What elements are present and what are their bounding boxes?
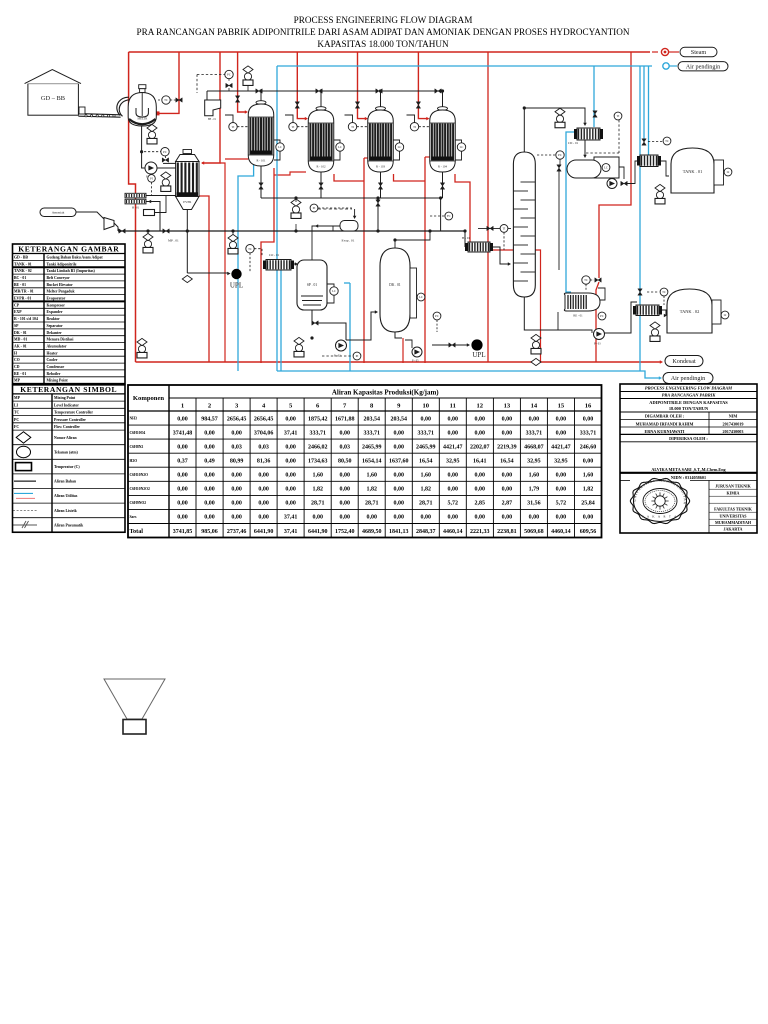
wire black double pipe H-01 line — [125, 195, 176, 197]
svg-text:C6H10N2O: C6H10N2O — [130, 473, 149, 477]
svg-text:2,87: 2,87 — [502, 501, 513, 507]
svg-text:MP: MP — [14, 379, 21, 383]
instrument LC dk — [417, 293, 425, 301]
svg-text:1,60: 1,60 — [421, 473, 432, 479]
svg-text:Aliran Listrik: Aliran Listrik — [54, 509, 78, 513]
wire black main mixing line — [118, 230, 465, 232]
chute hopper — [205, 100, 221, 116]
svg-text:0,00: 0,00 — [285, 459, 296, 465]
svg-text:31,56: 31,56 — [527, 501, 541, 507]
pump P-01 — [145, 162, 157, 174]
instrument LC R4 — [457, 143, 465, 151]
svg-text:C6H9NO2: C6H9NO2 — [130, 501, 147, 505]
instrument stack bottoms — [291, 199, 301, 219]
wire black reboiler vapor return — [597, 288, 605, 300]
instrument TC tank01 line — [663, 137, 671, 145]
svg-text:DK - 01: DK - 01 — [14, 331, 27, 335]
svg-text:4460,14: 4460,14 — [551, 529, 571, 535]
svg-text:KIMIA: KIMIA — [727, 491, 740, 496]
svg-text:80,99: 80,99 — [230, 459, 244, 465]
svg-text:Pressure Controller: Pressure Controller — [54, 418, 86, 422]
svg-text:0,00: 0,00 — [448, 416, 459, 422]
svg-text:0,00: 0,00 — [366, 515, 377, 521]
wire red heater loop — [488, 250, 541, 362]
title block — [620, 384, 757, 533]
svg-text:EXP: EXP — [14, 310, 22, 314]
svg-text:Aliran Bahan: Aliran Bahan — [54, 480, 77, 484]
heater H-01b — [462, 236, 493, 252]
svg-text:MD - 01: MD - 01 — [14, 338, 27, 342]
svg-text:LI: LI — [14, 403, 19, 407]
wire cyan tank cooler branch — [639, 66, 641, 371]
instrument TC tank02 — [660, 288, 668, 296]
wire black pump P-02 to decanter — [346, 312, 376, 340]
svg-text:NH3: NH3 — [130, 417, 138, 421]
instrument LC R2 — [336, 143, 344, 151]
svg-text:KETERANGAN GAMBAR: KETERANGAN GAMBAR — [18, 244, 119, 253]
svg-text:0,00: 0,00 — [204, 487, 215, 493]
svg-text:0,00: 0,00 — [529, 416, 540, 422]
wire black amoniak feed — [76, 212, 104, 219]
stream diamond dk bottom — [531, 358, 541, 365]
svg-text:81,36: 81,36 — [257, 459, 271, 465]
wire red reboiler steam — [599, 52, 631, 278]
instrument LC R3 — [395, 143, 403, 151]
svg-text:6441,90: 6441,90 — [308, 529, 328, 535]
svg-text:H: H — [14, 351, 17, 355]
svg-text:25,84: 25,84 — [581, 501, 595, 507]
svg-text:333,71: 333,71 — [418, 430, 435, 436]
wire black SP-01 bottom — [311, 310, 313, 323]
instrument TI cd — [614, 112, 622, 120]
wire black separator top vapor — [312, 226, 333, 260]
instrument LC sp — [330, 287, 338, 295]
svg-text:DIGAMBAR OLEH :: DIGAMBAR OLEH : — [645, 414, 685, 419]
svg-text:1,79: 1,79 — [529, 487, 540, 493]
svg-text:Cooler: Cooler — [47, 358, 58, 362]
waste point UPL 1 — [231, 269, 241, 279]
wire black melter bottom outlet — [142, 126, 145, 168]
instrument stack overhead — [555, 108, 565, 128]
svg-text:UNIVERSITAS: UNIVERSITAS — [719, 514, 747, 519]
warehouse GD-BB — [25, 70, 81, 116]
svg-text:MUHAMAD IRFANDI RAHIM: MUHAMAD IRFANDI RAHIM — [636, 421, 694, 426]
svg-text:0,03: 0,03 — [258, 444, 269, 450]
svg-text:0,00: 0,00 — [204, 515, 215, 521]
svg-text:0,37: 0,37 — [177, 459, 188, 465]
amoniak source — [40, 208, 76, 217]
svg-text:0,00: 0,00 — [204, 473, 215, 479]
svg-text:4460,14: 4460,14 — [443, 529, 463, 535]
svg-text:1,60: 1,60 — [583, 473, 594, 479]
air pendingin bottom label — [663, 373, 713, 384]
svg-text:0,00: 0,00 — [204, 501, 215, 507]
wire red R-103 feed drop — [364, 157, 369, 159]
svg-text:BE - 01: BE - 01 — [14, 283, 26, 287]
instrument TI R1 — [229, 123, 237, 131]
svg-text:1654,14: 1654,14 — [362, 459, 382, 465]
svg-text:Separator: Separator — [47, 324, 64, 328]
svg-text:0,00: 0,00 — [258, 473, 269, 479]
svg-text:0,00: 0,00 — [394, 473, 405, 479]
decanter DK-01 — [380, 248, 417, 332]
wire red melter feed — [159, 52, 179, 113]
funnel symbol — [104, 679, 165, 719]
mixing point MP-01 — [119, 229, 125, 233]
svg-text:Dekanter: Dekanter — [47, 331, 62, 335]
svg-text:1,60: 1,60 — [529, 473, 540, 479]
wire cyan H-02 branch — [648, 66, 650, 155]
wire cyan tank valve branch — [643, 66, 645, 139]
svg-text:0,00: 0,00 — [556, 430, 567, 436]
svg-text:C6H8N2: C6H8N2 — [130, 445, 144, 449]
valve feed — [487, 226, 493, 230]
svg-text:Tekanan (atm): Tekanan (atm) — [54, 450, 79, 454]
svg-text:14: 14 — [531, 403, 538, 410]
svg-text:0,00: 0,00 — [177, 501, 188, 507]
svg-text:H2O: H2O — [130, 459, 138, 463]
svg-text:1637,60: 1637,60 — [389, 459, 409, 465]
bucket elevator chute — [117, 97, 129, 115]
svg-text:0,00: 0,00 — [339, 515, 350, 521]
svg-text:Temperature Controller: Temperature Controller — [54, 411, 93, 415]
svg-text:333,71: 333,71 — [363, 430, 380, 436]
svg-text:16,54: 16,54 — [500, 459, 514, 465]
svg-text:0,00: 0,00 — [556, 515, 567, 521]
svg-text:16: 16 — [585, 403, 592, 410]
svg-text:2017430003: 2017430003 — [723, 429, 744, 434]
svg-text:333,71: 333,71 — [580, 430, 597, 436]
svg-text:0,00: 0,00 — [231, 487, 242, 493]
instrument PC evaporator — [161, 148, 169, 156]
svg-text:0,00: 0,00 — [177, 487, 188, 493]
svg-text:Mixing Point: Mixing Point — [47, 379, 69, 383]
instrument stack melter bottom — [147, 124, 157, 144]
svg-text:0,00: 0,00 — [177, 473, 188, 479]
svg-text:4421,47: 4421,47 — [551, 444, 571, 450]
svg-text:1: 1 — [181, 403, 184, 410]
svg-text:Flow Controller: Flow Controller — [54, 425, 80, 429]
svg-text:0,00: 0,00 — [339, 430, 350, 436]
svg-text:GD - BB: GD - BB — [14, 255, 28, 259]
instrument LC accumulator — [602, 164, 610, 172]
instrument TI feed — [500, 225, 508, 233]
instrument stack b1 — [137, 338, 147, 358]
svg-text:984,57: 984,57 — [201, 416, 218, 422]
compressor CP-01 — [104, 218, 114, 230]
wire black CD-01 to accumulator — [583, 155, 587, 158]
svg-text:Menara Distilasi: Menara Distilasi — [47, 338, 74, 342]
svg-text:1,82: 1,82 — [583, 487, 594, 493]
svg-text:Aliran Kapasitas Produksi(Kg/j: Aliran Kapasitas Produksi(Kg/jam) — [332, 389, 439, 397]
svg-text:0,00: 0,00 — [556, 473, 567, 479]
svg-text:2219,39: 2219,39 — [497, 444, 517, 450]
wire red R-102 outlet riser — [334, 174, 364, 181]
separator SP-01 — [297, 260, 327, 310]
evap drum Evap-01 — [340, 221, 358, 232]
instrument TC melter — [162, 96, 170, 104]
svg-text:1671,88: 1671,88 — [335, 416, 355, 422]
svg-text:Evaporator: Evaporator — [47, 297, 66, 301]
svg-text:JURUSAN TEKNIK: JURUSAN TEKNIK — [715, 484, 751, 489]
svg-text:PROCESS ENGINEERING FLOW DIAGR: PROCESS ENGINEERING FLOW DIAGRAM — [645, 386, 733, 391]
svg-text:0,00: 0,00 — [204, 430, 215, 436]
svg-text:203,54: 203,54 — [391, 416, 408, 422]
svg-text:0,00: 0,00 — [231, 515, 242, 521]
svg-text:0,00: 0,00 — [285, 501, 296, 507]
svg-text:0,00: 0,00 — [475, 430, 486, 436]
svg-text:37,41: 37,41 — [284, 515, 298, 521]
tank TANK-01 — [671, 148, 724, 193]
svg-text:MP: MP — [14, 396, 21, 400]
air pendingin source symbol — [663, 63, 669, 69]
svg-text:985,06: 985,06 — [201, 529, 218, 535]
reboiler RE-01 — [564, 293, 600, 318]
instrument TI R2 — [289, 123, 297, 131]
svg-text:0,00: 0,00 — [421, 515, 432, 521]
wire black decanter side to pump — [405, 340, 412, 348]
air pendingin top label — [669, 65, 677, 67]
wire black decanter bottom — [395, 332, 402, 338]
wire red reactor R-103 feed — [358, 52, 367, 119]
svg-text:0,00: 0,00 — [231, 473, 242, 479]
wire red evaporator bottoms — [199, 196, 209, 362]
svg-text:BC - 01: BC - 01 — [14, 276, 26, 280]
svg-text:2017430019: 2017430019 — [723, 421, 744, 426]
svg-text:3741,48: 3741,48 — [173, 430, 193, 436]
svg-text:32,95: 32,95 — [446, 459, 460, 465]
svg-text:5069,68: 5069,68 — [524, 529, 544, 535]
svg-text:4668,07: 4668,07 — [524, 444, 544, 450]
svg-text:0,00: 0,00 — [475, 487, 486, 493]
wire black AK to pump — [619, 167, 624, 179]
wire red bottom condensate header — [136, 361, 662, 363]
instrument stack R1 feed — [243, 66, 253, 86]
svg-text:1,60: 1,60 — [312, 473, 323, 479]
wire black decanter overhead — [395, 231, 430, 248]
svg-text:0,00: 0,00 — [448, 430, 459, 436]
svg-text:0,00: 0,00 — [475, 473, 486, 479]
svg-text:Reaktor: Reaktor — [47, 317, 61, 321]
svg-text:0,00: 0,00 — [583, 416, 594, 422]
instrument PI bottoms — [310, 204, 318, 212]
reactor R - 101 — [248, 101, 274, 166]
svg-text:0,00: 0,00 — [339, 487, 350, 493]
wire black header drop R-102 — [320, 91, 322, 109]
svg-text:1,82: 1,82 — [421, 487, 432, 493]
svg-text:AK - 01: AK - 01 — [14, 345, 27, 349]
instrument PI — [148, 175, 156, 183]
svg-text:2238,81: 2238,81 — [497, 529, 517, 535]
svg-text:ALVIKA META SARI ,S.T,.M.Chem.: ALVIKA META SARI ,S.T,.M.Chem.Eng — [651, 467, 726, 472]
svg-text:0,00: 0,00 — [475, 515, 486, 521]
svg-text:6441,90: 6441,90 — [254, 529, 274, 535]
svg-text:0,00: 0,00 — [583, 459, 594, 465]
instrument TC reboiler — [582, 276, 590, 284]
svg-text:1875,42: 1875,42 — [308, 416, 328, 422]
svg-text:203,54: 203,54 — [363, 416, 380, 422]
svg-text:0,00: 0,00 — [394, 444, 405, 450]
instrument LI tank01 — [724, 168, 732, 176]
svg-text:2848,37: 2848,37 — [416, 529, 436, 535]
wire black to waste UPL — [187, 272, 228, 274]
waste point UPL 2 — [471, 339, 482, 350]
instrument stack tank01 — [655, 184, 665, 204]
svg-text:0,00: 0,00 — [204, 444, 215, 450]
svg-text:Heater: Heater — [47, 351, 58, 355]
svg-text:2465,99: 2465,99 — [362, 444, 382, 450]
svg-text:DIPERIKSA OLEH :: DIPERIKSA OLEH : — [669, 436, 708, 441]
instrument LI tank02 — [721, 311, 729, 319]
svg-text:Temperatur (C): Temperatur (C) — [54, 465, 80, 469]
svg-text:KETERANGAN SIMBOL: KETERANGAN SIMBOL — [20, 385, 117, 394]
svg-text:Kompresor: Kompresor — [47, 303, 66, 307]
svg-text:RE - 01: RE - 01 — [14, 372, 26, 376]
wire black column bottom to reboiler — [524, 297, 560, 330]
evaporator EVPR-01 — [176, 150, 199, 210]
svg-text:1752,40: 1752,40 — [335, 529, 355, 535]
svg-text:PRA RANCANGAN PABRIK: PRA RANCANGAN PABRIK — [662, 393, 717, 398]
wire black from column bottoms to P-03 — [560, 330, 592, 333]
distillation column MD-01 — [513, 152, 535, 297]
svg-text:Nomor Aliran: Nomor Aliran — [54, 436, 77, 440]
svg-text:0,00: 0,00 — [502, 487, 513, 493]
svg-text:10: 10 — [423, 403, 430, 410]
wire cyan SP branch — [344, 282, 350, 284]
svg-text:SP: SP — [14, 324, 19, 328]
instrument stack mp01 — [143, 233, 153, 253]
wire black evaporator bottom line to stream diamond — [186, 210, 188, 273]
svg-text:R - 101 s/d 104: R - 101 s/d 104 — [14, 317, 38, 321]
svg-text:0,00: 0,00 — [394, 515, 405, 521]
wire black evap feed drop — [354, 209, 356, 217]
svg-text:0,00: 0,00 — [502, 416, 513, 422]
svg-text:Tanki Limbah B3 (Impuritas): Tanki Limbah B3 (Impuritas) — [47, 269, 96, 273]
kondesat label — [665, 356, 703, 367]
cooler CO-02 tank line — [637, 155, 661, 167]
svg-text:0,00: 0,00 — [177, 515, 188, 521]
svg-text:TANK - 02: TANK - 02 — [14, 269, 32, 273]
svg-text:0,00: 0,00 — [583, 515, 594, 521]
wire black header drop R-103 — [380, 91, 382, 109]
wire cyan cooling water top header — [277, 65, 652, 67]
svg-text:333,71: 333,71 — [526, 430, 543, 436]
wire red reactor R-104 feed — [418, 52, 427, 119]
wire red R-101 bottom inlet — [225, 158, 248, 160]
instrument PC header — [225, 70, 233, 78]
svg-text:1,82: 1,82 — [366, 487, 377, 493]
svg-text:0,00: 0,00 — [394, 487, 405, 493]
svg-text:1,82: 1,82 — [312, 487, 323, 493]
svg-text:4689,50: 4689,50 — [362, 529, 382, 535]
svg-text:J A K A R T A: J A K A R T A — [642, 515, 677, 519]
svg-text:Tanki Adiponitrile: Tanki Adiponitrile — [47, 262, 77, 266]
svg-text:0,00: 0,00 — [312, 515, 323, 521]
instrument stack column bottoms — [531, 334, 541, 354]
instrument TC co01 — [246, 245, 254, 253]
svg-text:15: 15 — [558, 403, 565, 410]
instrument stack evap side — [161, 172, 171, 192]
svg-text:Melter Pengaduk: Melter Pengaduk — [47, 290, 76, 294]
svg-text:0,00: 0,00 — [448, 473, 459, 479]
instrument TI R3 — [348, 123, 356, 131]
svg-text:4421,47: 4421,47 — [443, 444, 463, 450]
wire black header drop R-101 — [260, 91, 262, 103]
svg-text:CD: CD — [14, 365, 20, 369]
wire red R-102 bottom inlet — [274, 172, 306, 175]
svg-text:0,00: 0,00 — [231, 430, 242, 436]
svg-text:0,00: 0,00 — [502, 430, 513, 436]
svg-text:Sars: Sars — [130, 515, 138, 519]
svg-text:0,00: 0,00 — [258, 501, 269, 507]
wire black tank-02 feed — [603, 302, 637, 333]
cooler H-02 — [633, 305, 662, 316]
wire red reactor R-101 feed — [238, 52, 246, 112]
pump P-03 — [594, 329, 605, 340]
legend table KETERANGAN GAMBAR — [13, 244, 126, 384]
wire black line to H-01 feed preheater — [464, 231, 466, 247]
wire cyan separator jacket — [238, 163, 254, 371]
instrument stack sp bottom — [294, 337, 304, 357]
wire red R-104 outlet riser — [455, 174, 470, 242]
svg-text:Akumulator: Akumulator — [47, 345, 67, 349]
svg-text:0,00: 0,00 — [421, 416, 432, 422]
svg-text:Mixing Point: Mixing Point — [54, 396, 76, 400]
svg-text:3704,06: 3704,06 — [254, 430, 274, 436]
wire black chute feed — [206, 91, 208, 100]
svg-text:0,00: 0,00 — [529, 515, 540, 521]
svg-text:28,71: 28,71 — [311, 501, 325, 507]
svg-text:2465,99: 2465,99 — [416, 444, 436, 450]
svg-text:0,00: 0,00 — [556, 416, 567, 422]
svg-text:0,00: 0,00 — [177, 444, 188, 450]
svg-text:Aliran Pneumatik: Aliran Pneumatik — [54, 523, 84, 527]
pump P-02 — [336, 340, 347, 351]
svg-text:2737,46: 2737,46 — [227, 529, 247, 535]
wire black column overhead — [524, 108, 585, 152]
reactor R - 102 — [308, 107, 334, 172]
svg-text:0,00: 0,00 — [502, 515, 513, 521]
wire red steam drop to heater H-01 — [487, 52, 489, 362]
svg-text:28,71: 28,71 — [419, 501, 433, 507]
melter MR/TR-01 — [128, 85, 156, 126]
belt conveyor BC-01 — [78, 107, 120, 117]
wire black NH3 gas header — [207, 90, 443, 92]
wire red evaporator feed — [202, 52, 220, 163]
heater H-01 double pipe — [125, 193, 146, 209]
svg-text:0,00: 0,00 — [394, 430, 405, 436]
wire cyan condenser CD-01 feed — [593, 66, 595, 127]
cooler CO-01 — [263, 253, 294, 270]
svg-text:NIDN : 0314058601: NIDN : 0314058601 — [671, 475, 706, 480]
svg-text:Belt Conveyor: Belt Conveyor — [47, 276, 71, 280]
wire cyan reboiler branch from CD outlet — [566, 132, 577, 292]
svg-text:333,71: 333,71 — [309, 430, 326, 436]
wire red R-101 outlet riser — [261, 168, 274, 363]
svg-text:Gudang Bahan Baku Asam Adipat: Gudang Bahan Baku Asam Adipat — [47, 255, 104, 259]
svg-text:0,00: 0,00 — [231, 501, 242, 507]
wire red steam header top — [129, 51, 650, 53]
svg-text:TC: TC — [14, 411, 20, 415]
svg-text:80,50: 80,50 — [338, 459, 352, 465]
svg-text:0,00: 0,00 — [285, 473, 296, 479]
wire cyan CO-01 branch — [280, 265, 282, 371]
instrument PC line — [433, 312, 441, 320]
svg-text:12: 12 — [477, 403, 484, 410]
wire red reactor R-102 feed — [297, 52, 306, 119]
wire red R-103 outlet riser — [394, 174, 426, 181]
svg-text:37,41: 37,41 — [284, 529, 298, 535]
